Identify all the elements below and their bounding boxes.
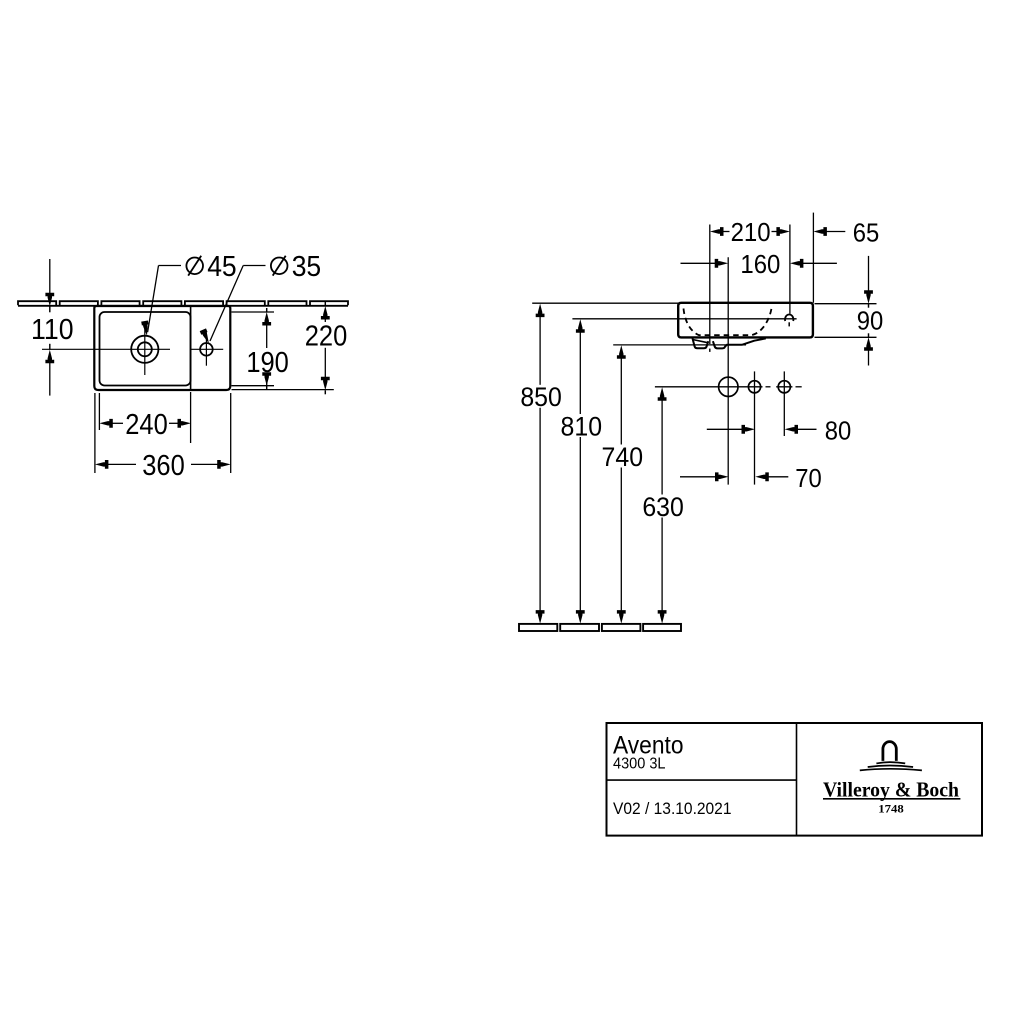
dimension 210 arrow left <box>710 227 724 236</box>
dimension 740 line upper <box>620 358 622 445</box>
logo ripple arc 3 <box>860 769 922 771</box>
dimension 70 arrow left (outside) <box>715 472 729 481</box>
svg-text:70: 70 <box>795 463 822 493</box>
dimension 190 arrow down <box>262 372 271 386</box>
dimension 160 line right <box>802 262 837 264</box>
dimension 160 arrow right (outside) <box>790 259 804 268</box>
dimension 110 lower line <box>49 362 51 395</box>
drain hole inner circle <box>138 342 152 356</box>
dimension 65 line <box>825 231 845 233</box>
dimension 80 line right <box>797 428 817 430</box>
svg-text:45: 45 <box>207 251 237 283</box>
svg-text:210: 210 <box>731 217 771 247</box>
diameter 45 leader diagonal <box>148 266 159 333</box>
dimension 90 extension top <box>815 303 877 305</box>
dimension 740 arrow top <box>617 345 626 359</box>
dimension 70 line left <box>680 476 715 478</box>
svg-text:850: 850 <box>520 382 562 412</box>
dash after second hole <box>766 386 771 388</box>
svg-text:220: 220 <box>305 320 348 352</box>
svg-text:110: 110 <box>31 314 74 346</box>
dimension 90 upper line <box>868 256 870 292</box>
dimension 220 arrow down <box>321 377 330 391</box>
diameter 45 label symbol <box>186 258 203 275</box>
dimension 220 extension line <box>232 389 334 391</box>
reference line 740 <box>613 344 746 346</box>
dimension 810 arrow bottom <box>576 610 585 624</box>
svg-text:160: 160 <box>740 249 780 279</box>
dimension 240 line right <box>169 422 178 424</box>
dimension 190 lower line <box>266 375 268 386</box>
dimension 360 arrow left <box>95 460 109 469</box>
logo ripple arc 2 <box>868 766 913 768</box>
dimension 70 line right <box>767 476 788 478</box>
dimension 90 arrow down <box>864 290 873 304</box>
tap hole circle (top view) <box>200 343 213 356</box>
tap hole crosshair horizontal <box>191 348 223 350</box>
dimension 630 arrow bottom <box>658 610 667 624</box>
dimension 240 arrow right <box>178 419 192 428</box>
dimension 80 arrow left (outside) <box>742 425 756 434</box>
drain centre dash <box>709 349 711 352</box>
dimension 360 line right <box>191 463 218 465</box>
title block vertical divider <box>796 723 798 836</box>
dimension 190 arrow up <box>262 312 271 326</box>
diameter 35 leader arrow <box>200 328 209 343</box>
dimension 210 arrow right <box>776 227 790 236</box>
dimension 850 arrow bottom <box>536 610 545 624</box>
dimension 80 line left <box>707 428 743 430</box>
tap hole tick (side view) <box>788 322 790 326</box>
diameter 35 label symbol <box>271 258 288 275</box>
drain trough diagonal <box>693 340 708 343</box>
drain hole outer circle <box>131 336 158 363</box>
wall hatch line (top view) <box>18 301 348 306</box>
dimension 210 line <box>723 231 730 233</box>
svg-text:V02 / 13.10.2021: V02 / 13.10.2021 <box>613 799 732 818</box>
dimension 160 arrow left (outside) <box>715 259 729 268</box>
svg-text:35: 35 <box>292 251 322 283</box>
dimension 190 extension line top <box>232 311 275 313</box>
diameter 35 leader diagonal <box>210 266 243 342</box>
svg-text:80: 80 <box>825 416 852 446</box>
dimension 240 extension right <box>190 392 192 443</box>
fixing hole middle circle <box>748 381 760 393</box>
dimension 360 line left <box>108 463 136 465</box>
dimension 740 line lower <box>620 468 622 612</box>
dimension 240 arrow left <box>99 419 113 428</box>
svg-text:4300 3L: 4300 3L <box>613 755 666 772</box>
dimension 810 line lower <box>579 437 581 612</box>
basin outline (side view) <box>678 303 813 338</box>
dimension 110 upper line <box>49 259 51 294</box>
dimension 190 extension line bottom <box>232 385 275 387</box>
svg-text:360: 360 <box>142 450 185 482</box>
dimension 190 line <box>266 325 268 348</box>
dimension 360 extension right <box>230 393 232 473</box>
bowl profile dashed (side view) <box>684 308 772 335</box>
dimension 630 line upper <box>661 400 663 495</box>
vertical extension line tap centre <box>789 225 791 314</box>
dimension 360 arrow right <box>217 460 231 469</box>
tap hole crosshair vertical <box>205 332 207 365</box>
third hole crosshair horizontal <box>776 386 792 388</box>
dimension 220 line lower <box>324 348 326 378</box>
drain trough left (side view) <box>693 338 709 348</box>
dimension 740 arrow bottom <box>617 610 626 624</box>
dimension 90 extension bottom <box>815 336 877 338</box>
dimension 240 line left <box>112 422 123 424</box>
diameter 45 leader arrow <box>141 321 148 336</box>
floor hatch planks <box>519 624 681 631</box>
fixing hole right circle <box>778 381 790 393</box>
dimension 70 arrow right (outside) <box>755 472 769 481</box>
reference line 810 <box>572 318 796 320</box>
dimension 630 line lower <box>661 518 663 612</box>
svg-text:630: 630 <box>642 492 684 522</box>
dimension 220 line upper <box>324 319 326 322</box>
vertical extension line fixing centre <box>727 257 729 484</box>
svg-text:90: 90 <box>857 306 884 336</box>
dimension 90 arrow up <box>864 337 873 351</box>
drain fixing hole large circle <box>719 377 738 396</box>
centerline horizontal through drain <box>42 348 170 350</box>
diameter 45 leader horizontal <box>159 265 182 267</box>
dimension 630 arrow top <box>658 387 667 401</box>
svg-text:1748: 1748 <box>878 802 904 816</box>
dimension 65 arrow <box>813 227 827 236</box>
svg-text:810: 810 <box>561 411 603 441</box>
centerline vertical through drain <box>144 327 146 375</box>
diameter 35 leader horizontal <box>243 265 265 267</box>
vertical extension line middle hole <box>754 371 756 484</box>
dimension 240 extension left <box>98 393 100 430</box>
dimension 850 line lower <box>539 408 541 612</box>
logo underline <box>823 798 960 800</box>
svg-text:65: 65 <box>853 217 880 247</box>
reference line 850 (wall top) <box>532 302 678 304</box>
trailing dash <box>796 386 802 388</box>
title block frame <box>607 723 983 836</box>
dimension 110 lower arrow <box>45 350 54 364</box>
dimension 160 line left <box>681 262 717 264</box>
title block horizontal divider <box>607 779 797 781</box>
reference line 630 through fixing holes <box>655 386 763 388</box>
svg-text:740: 740 <box>602 442 644 472</box>
dimension 360 extension left <box>94 393 96 473</box>
vertical extension line drain centre <box>709 225 711 345</box>
logo ripple arc 1 <box>876 762 905 763</box>
svg-text:240: 240 <box>125 409 168 441</box>
dimension 810 arrow top <box>576 319 585 333</box>
dimension 90 lower line <box>868 350 870 365</box>
basin outer outline (top view) <box>94 306 230 390</box>
dimension 810 line upper <box>579 332 581 414</box>
inner bowl outline <box>100 312 191 386</box>
vertical extension line basin right edge <box>812 213 814 303</box>
dimension 220 arrow up <box>321 306 330 320</box>
dimension 850 arrow top <box>536 304 545 318</box>
dimension 80 arrow right (outside) <box>785 425 799 434</box>
dimension 850 line upper <box>539 316 541 385</box>
drain trough right and shelf (side view) <box>713 338 766 348</box>
dimension 110 upper arrow <box>45 293 54 307</box>
vertical extension line right hole <box>783 371 785 436</box>
deck divider line <box>190 306 192 390</box>
tap hole arc (side view) <box>785 314 793 321</box>
Villeroy and Boch logo hoop <box>883 742 896 761</box>
